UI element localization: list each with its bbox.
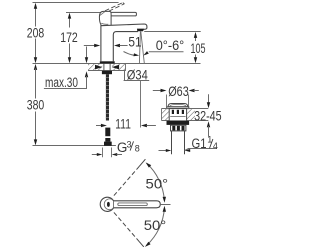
dashed raised lever (open position) (103, 3, 125, 15)
lever handle (side view, closed) (110, 12, 136, 16)
drain push cap dome (168, 104, 188, 107)
arc 50deg lower with arrows (144, 206, 167, 247)
svg-text:208: 208 (27, 24, 45, 40)
label G3/8 with thread arrows (92, 139, 140, 157)
label G1 1/4 with arrows (159, 135, 218, 153)
dimension 380 (height to hose end) (27, 64, 116, 146)
svg-text:111: 111 (115, 116, 131, 132)
center axis line (161, 204, 171, 206)
svg-text:105: 105 (191, 40, 206, 56)
handle top view outline (100, 197, 160, 211)
countertop section at faucet (33, 64, 201, 71)
dimension 111 (axis to spout axis) (96, 116, 156, 132)
label 0deg-6deg with leader arrow (143, 38, 184, 55)
svg-text:Ø63: Ø63 (168, 83, 189, 99)
handle knuckle (pivot) (99, 11, 111, 25)
dimension 172 (body height) (60, 13, 111, 64)
drain flange (167, 107, 189, 109)
svg-text:32-45: 32-45 (194, 108, 222, 123)
svg-text:50°: 50° (146, 175, 169, 191)
arc 50deg upper with arrows (146, 162, 169, 202)
dashed swing ray down 50deg (114, 212, 144, 247)
svg-text:172: 172 (60, 29, 78, 45)
tailpipe G1 1/4 (172, 131, 185, 154)
drain body through counter (169, 109, 186, 121)
faucet body: spout arm and column (101, 24, 147, 61)
label D34 (tap hole) (124, 67, 150, 83)
dimension 32-45 (deck thickness at drain) (194, 94, 222, 136)
dimension 105 (spout height) (144, 32, 205, 64)
threaded collar (171, 125, 186, 131)
svg-text:51: 51 (128, 33, 141, 49)
svg-text:Ø34: Ø34 (127, 67, 148, 83)
dimension 51 (body depth) (84, 33, 142, 49)
mounting hardware: base, clamp arrows, shank, nut (95, 61, 119, 74)
countertop section at drain (162, 109, 209, 121)
svg-text:0°-6°: 0°-6° (156, 38, 185, 53)
spray angle lines 0deg and 6deg (139, 31, 144, 63)
dimension D63 (flange diameter) (153, 83, 199, 107)
drain locknut (black) (167, 121, 190, 125)
label max.30 (counter thickness) with arrows (44, 47, 88, 91)
aerator (black) at spout outlet (137, 29, 144, 32)
flexible supply hose (106, 74, 109, 120)
dimension 208 (total height, left vertical) (27, 3, 119, 64)
svg-text:4: 4 (213, 141, 218, 151)
hose end connector G3/8 (104, 128, 112, 146)
svg-text:G1: G1 (192, 136, 207, 151)
angle arc arrow (left of 0deg line) (124, 52, 140, 57)
spout axis extension line down to 111 dim (140, 81, 142, 128)
svg-text:max.30: max.30 (45, 75, 78, 90)
svg-text:380: 380 (27, 97, 45, 113)
dashed swing ray up 50deg (114, 159, 145, 195)
svg-text:50°: 50° (144, 217, 167, 233)
svg-text:8: 8 (135, 144, 140, 154)
